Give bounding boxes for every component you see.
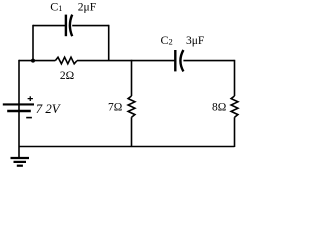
wire: main middle wire, left part up to 2-ohm resistor xyxy=(19,60,55,62)
capacitor C1 flat plate xyxy=(65,15,67,37)
wire: ground stem below bottom wire xyxy=(18,147,20,158)
wire: battery branch (from main wire down through battery to bottom wire) xyxy=(18,60,20,147)
label battery minus sign xyxy=(26,117,32,119)
wire: 8-ohm branch upper lead xyxy=(234,60,236,96)
wire: bottom wire xyxy=(19,146,235,148)
svg-text:8Ω: 8Ω xyxy=(212,102,226,114)
resistor 7ohm zigzag (vertical) xyxy=(128,96,135,117)
svg-text:C1: C1 xyxy=(50,0,62,13)
battery V1 positive plate (long bar) xyxy=(3,103,34,105)
capacitor C2 flat plate xyxy=(174,50,176,71)
label battery plus sign xyxy=(28,96,33,101)
svg-text:3μF: 3μF xyxy=(186,35,204,47)
wire: 7-ohm branch upper lead xyxy=(131,60,133,96)
svg-text:7Ω: 7Ω xyxy=(108,102,122,114)
ground bar 1 (widest) xyxy=(11,157,30,159)
wire: C1 box left edge (vertical) xyxy=(32,25,34,61)
capacitor C1 curved plate xyxy=(70,15,72,37)
svg-text:7 2V: 7 2V xyxy=(36,102,62,116)
wire: C1 box right edge (vertical) xyxy=(108,25,110,61)
ground bar 3 (shortest) xyxy=(17,165,23,167)
resistor 8ohm zigzag (vertical) xyxy=(231,96,238,117)
svg-text:2μF: 2μF xyxy=(78,1,96,13)
wire: 7-ohm branch lower lead xyxy=(131,117,133,147)
capacitor C2 curved plate xyxy=(180,50,183,71)
wire: top wire right segment (C1 to box top-right corner) xyxy=(72,25,109,27)
node junction dot (left node) xyxy=(31,59,35,63)
battery V1 negative plate (short bar) xyxy=(7,110,31,113)
svg-text:2Ω: 2Ω xyxy=(60,70,74,82)
wire: main middle wire from 2ohm to C2 xyxy=(77,60,175,62)
wire: main middle wire from C2 to right edge xyxy=(183,60,234,62)
resistor 2ohm zigzag xyxy=(55,57,77,64)
wire: 8-ohm branch lower lead xyxy=(234,117,236,147)
wire: top wire left segment (C1 box top, left of C1) xyxy=(33,25,65,27)
ground bar 2 (middle) xyxy=(14,161,27,163)
